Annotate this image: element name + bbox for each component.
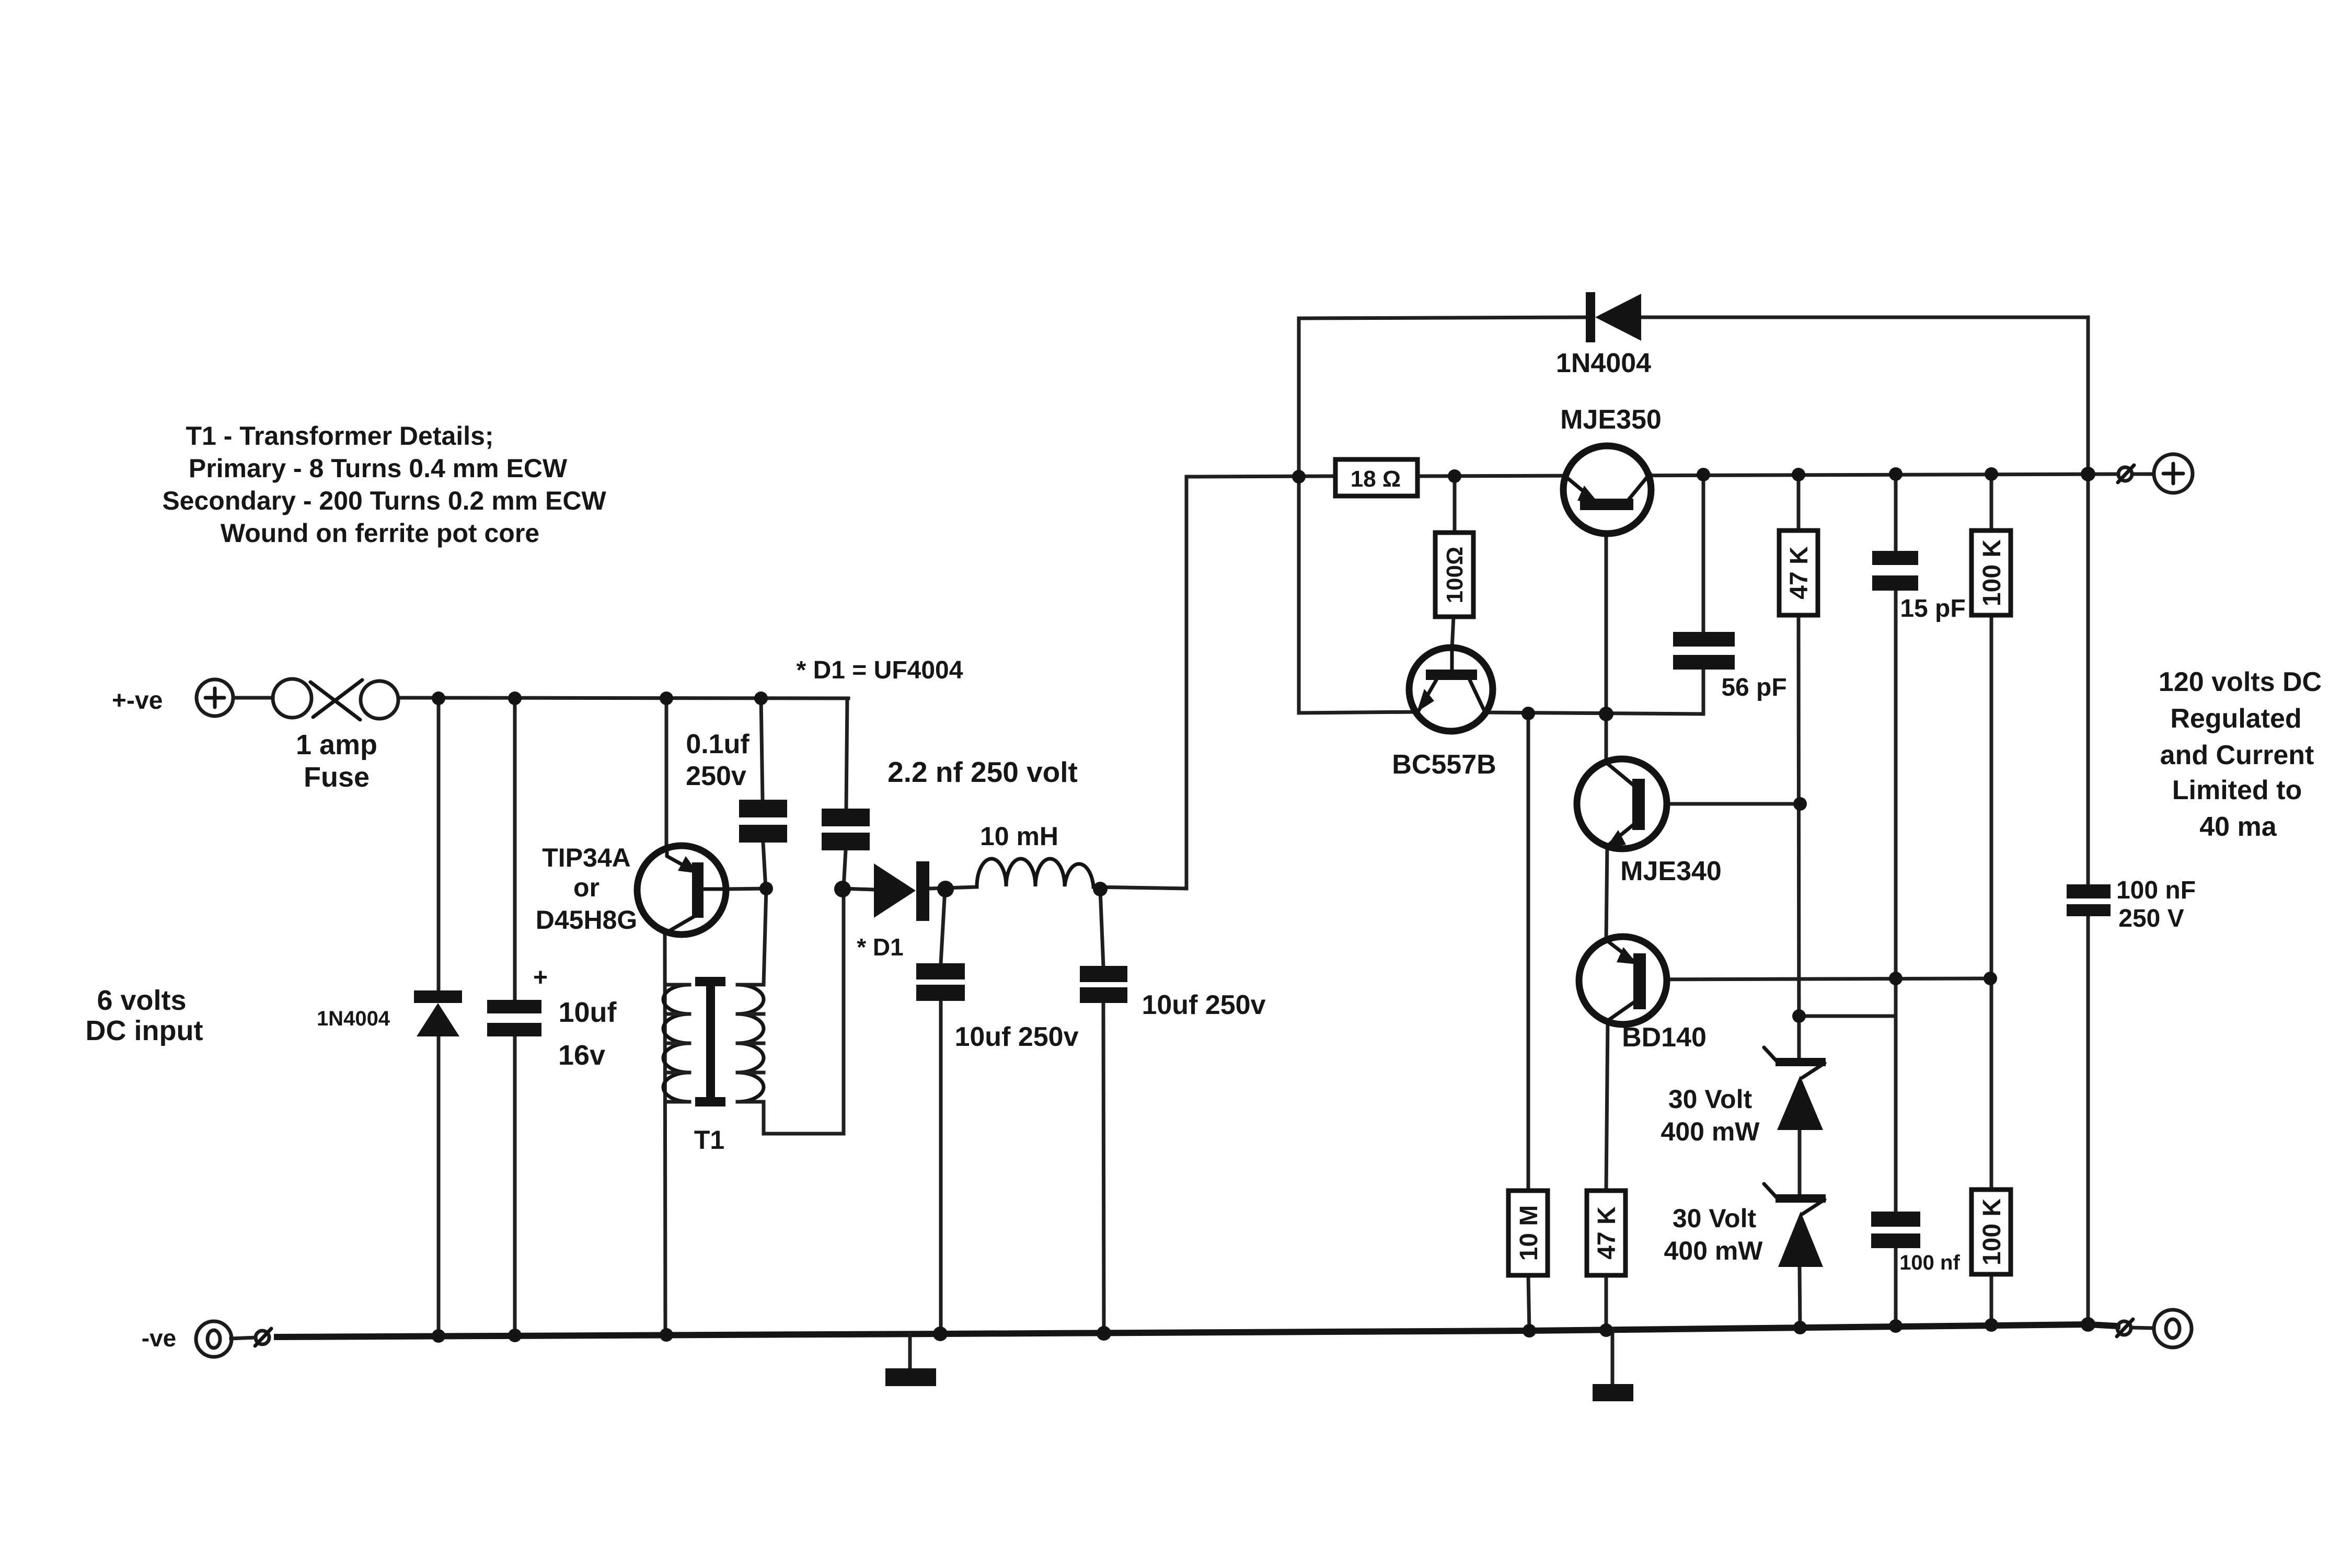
svg-text:1 amp: 1 amp: [296, 729, 377, 760]
node inductor output: [1093, 882, 1108, 896]
capacitor 2.2nf 250v: [822, 809, 870, 850]
wire 0out links: [2131, 1328, 2154, 1328]
svg-text:16v: 16v: [558, 1040, 605, 1071]
svg-text:30 Volt: 30 Volt: [1668, 1085, 1753, 1114]
terminal +out: [2154, 454, 2193, 493]
resistor 18 ohm: [1335, 459, 1417, 496]
wire 10uf 16v branch: [513, 698, 517, 1335]
wire BC557B collector run: [1482, 670, 1703, 714]
node MJE340 base: [1793, 797, 1807, 811]
node D1 anode: [834, 881, 851, 897]
svg-text:T1: T1: [694, 1125, 724, 1155]
wire right output vertical: [2086, 317, 2090, 1325]
terminal -ve input: [196, 1321, 232, 1357]
zener ZD1 30V 400mW: [1764, 1047, 1826, 1130]
wire 0.1uf leads: [761, 698, 766, 889]
svg-text:100Ω: 100Ω: [1442, 547, 1468, 604]
svg-text:Primary - 8 Turns 0.4 mm ECW: Primary - 8 Turns 0.4 mm ECW: [189, 454, 568, 483]
label 6 volts DC input: [86, 985, 203, 1046]
svg-text:TIP34A: TIP34A: [542, 843, 631, 872]
svg-text:10uf 250v: 10uf 250v: [1142, 990, 1265, 1020]
label 100 nF 250 V: [2116, 877, 2196, 932]
wire 10uf 250v cap2 branch: [1100, 890, 1104, 1334]
label 0.1uf 250v: [686, 729, 750, 791]
label 1 amp Fuse: [296, 729, 377, 793]
svg-text:100 nf: 100 nf: [1899, 1251, 1960, 1274]
svg-text:6 volts: 6 volts: [97, 985, 186, 1016]
svg-text:47 K: 47 K: [1785, 546, 1813, 599]
svg-text:* D1: * D1: [857, 933, 903, 961]
wire 1N4004 shunt branch: [437, 698, 441, 1335]
svg-text:30 Volt: 30 Volt: [1673, 1204, 1757, 1233]
svg-text:+-ve: +-ve: [112, 687, 163, 714]
svg-text:Secondary - 200 Turns 0.2 mm E: Secondary - 200 Turns 0.2 mm ECW: [162, 486, 606, 515]
svg-text:10 M: 10 M: [1515, 1205, 1543, 1261]
svg-text:47 K: 47 K: [1593, 1206, 1621, 1260]
svg-text:-ve: -ve: [142, 1324, 176, 1352]
diode 1N4004 feedback: [1586, 292, 1641, 342]
wire inductor output: [1093, 887, 1186, 889]
connector +out: [2118, 465, 2134, 482]
svg-text:100 K: 100 K: [1978, 539, 2006, 606]
wire 10M branch: [1528, 714, 1529, 1331]
svg-text:15 pF: 15 pF: [1900, 595, 1965, 622]
wire MJE340 emitter to BD140: [1606, 845, 1607, 941]
capacitor 10uf 250v second: [1080, 966, 1127, 1003]
svg-text:18 Ω: 18 Ω: [1351, 466, 1401, 492]
node BD140 base row: [1889, 972, 1997, 985]
svg-text:and Current: and Current: [2160, 740, 2314, 770]
svg-text:1N4004: 1N4004: [1556, 348, 1651, 378]
wire 2.2nf bottom to D1 anode node: [844, 850, 846, 887]
wire TIP34A emitter lead: [665, 698, 668, 849]
wire 18ohm output run to output terminal: [1417, 474, 2118, 476]
wire MJE340 collector lead: [1605, 714, 1608, 763]
capacitor 0.1uf 250v: [739, 800, 787, 843]
svg-text:* D1 = UF4004: * D1 = UF4004: [797, 656, 963, 684]
svg-text:250v: 250v: [686, 761, 746, 791]
ground near transformer: [885, 1335, 936, 1386]
svg-text:or: or: [573, 873, 599, 902]
terminal +ve input: [197, 679, 233, 716]
resistor 47K lower: [1587, 1191, 1625, 1275]
capacitor 100nf lower: [1871, 1212, 1920, 1248]
capacitor 15pF: [1872, 551, 1918, 591]
capacitor 100nF 250V: [2067, 884, 2111, 916]
transformer T1 secondary winding: [737, 985, 764, 1102]
transistor Q4 MJE340: [1577, 759, 1667, 849]
label ZD2 30 Volt 400 mW: [1664, 1204, 1763, 1265]
wire BD140 base run: [1646, 978, 1990, 979]
zener ZD2 30V 400mW: [1764, 1184, 1826, 1267]
wire +out links: [2132, 472, 2154, 476]
transistor Q2 BC557B: [1409, 648, 1493, 731]
svg-text:BC557B: BC557B: [1392, 750, 1496, 780]
transformer T1 core: [695, 977, 725, 1106]
node error amp row: [1521, 707, 1613, 721]
label TIP34A or D45H8G: [536, 843, 638, 935]
svg-text:2.2 nf 250 volt: 2.2 nf 250 volt: [887, 756, 1078, 788]
svg-text:+: +: [533, 964, 548, 991]
node D1 cathode: [937, 881, 954, 897]
resistor 10M: [1508, 1191, 1548, 1275]
resistor 47K upper: [1779, 531, 1818, 615]
node regulator input row: [1292, 469, 1461, 483]
svg-text:120 volts DC: 120 volts DC: [2159, 667, 2322, 697]
resistor 100K lower: [1971, 1190, 2011, 1274]
wire MJE350 base vertical: [1605, 510, 1608, 714]
transistor Q3 MJE350: [1563, 446, 1651, 534]
svg-text:250 V: 250 V: [2118, 905, 2184, 932]
wire boost node riser: [1186, 476, 1335, 889]
node top rail junctions: [432, 691, 768, 705]
ground near 47K: [1593, 1329, 1633, 1401]
wire BD140 collector to 47K: [1606, 1019, 1608, 1330]
diode 1N4004 input shunt: [414, 990, 462, 1036]
node bottom rail junctions: [432, 1317, 2095, 1343]
note output 120 volts DC: [2159, 667, 2322, 842]
wire -ve terminal link: [231, 1338, 256, 1339]
wire 56pF top lead: [1702, 474, 1705, 632]
label 10uf 16v: [558, 997, 617, 1071]
svg-text:DC input: DC input: [86, 1015, 203, 1046]
svg-text:10 mH: 10 mH: [980, 822, 1058, 851]
wire 10uf 250v cap1 branch: [941, 890, 945, 1334]
wire T1 primary lead: [665, 932, 665, 1335]
svg-text:100 nF: 100 nF: [2116, 877, 2196, 904]
connector -ve: [255, 1329, 271, 1346]
capacitor 56pF: [1673, 632, 1735, 670]
transistor Q1 TIP34A: [637, 846, 726, 935]
resistor 100 ohm: [1435, 533, 1473, 617]
svg-text:MJE350: MJE350: [1560, 405, 1662, 435]
svg-text:56 pF: 56 pF: [1721, 674, 1786, 701]
wire 15pF vertical chain: [1894, 474, 1898, 1327]
node zener top: [1792, 1009, 1806, 1023]
svg-text:40 ma: 40 ma: [2199, 812, 2277, 842]
fuse F1 1 amp: [273, 679, 398, 720]
wire 2.2nf top lead: [846, 698, 847, 809]
wire T1 secondary top lead: [764, 889, 766, 985]
svg-text:400 mW: 400 mW: [1664, 1236, 1763, 1265]
svg-text:400 mW: 400 mW: [1661, 1117, 1760, 1146]
capacitor 10uf 250v first: [916, 963, 965, 1001]
note T1 transformer details: [162, 421, 606, 548]
svg-text:D45H8G: D45H8G: [536, 905, 638, 935]
wire zener link and bottom: [1800, 1130, 1800, 1328]
svg-text:10uf: 10uf: [558, 997, 617, 1028]
wire 100K double vertical: [1990, 474, 1993, 1324]
connector 0out: [2117, 1319, 2133, 1336]
wire bottom negative rail: [277, 1324, 2117, 1337]
resistor 100K upper: [1971, 531, 2011, 615]
wire D1 cathode to inductor: [929, 887, 977, 889]
svg-text:10uf 250v: 10uf 250v: [954, 1022, 1078, 1052]
svg-text:Wound on ferrite pot core: Wound on ferrite pot core: [221, 518, 539, 548]
svg-text:MJE340: MJE340: [1620, 856, 1722, 886]
inductor L1 10mH: [977, 859, 1093, 886]
svg-text:BD140: BD140: [1622, 1022, 1707, 1053]
terminal 0out: [2154, 1310, 2192, 1347]
wire feedback top run: [1299, 317, 2088, 318]
node TIP34A base: [759, 882, 773, 895]
wire feedback left vertical: [1297, 318, 1301, 713]
svg-text:Limited to: Limited to: [2172, 775, 2302, 805]
wire 47K upper long vertical: [1798, 474, 1799, 1058]
svg-text:T1 - Transformer Details;: T1 - Transformer Details;: [186, 421, 493, 451]
svg-text:0.1uf: 0.1uf: [686, 729, 750, 759]
label ZD1 30 Volt 400 mW: [1661, 1085, 1760, 1146]
svg-text:100 K: 100 K: [1978, 1198, 2006, 1265]
wire BC557B emitter run: [1299, 712, 1421, 713]
wire MJE340 base run: [1645, 802, 1800, 806]
wire 100ohm leads: [1452, 476, 1455, 649]
svg-text:1N4004: 1N4004: [317, 1007, 390, 1030]
node output rail row: [1697, 467, 2095, 481]
svg-text:Fuse: Fuse: [304, 762, 370, 793]
wire D1 anode lead: [843, 889, 874, 890]
wire secondary bottom L link: [764, 887, 844, 1134]
diode D1 UF4004: [874, 861, 929, 921]
transistor Q5 BD140: [1579, 937, 1667, 1024]
wire zener top cross link: [1799, 1014, 1896, 1018]
svg-text:Regulated: Regulated: [2170, 704, 2301, 734]
wire TIP34A base to node: [726, 889, 766, 889]
capacitor 10uf 16v: [487, 1000, 541, 1036]
transformer T1 primary winding: [663, 985, 689, 1102]
wire top rail input: [233, 698, 848, 698]
